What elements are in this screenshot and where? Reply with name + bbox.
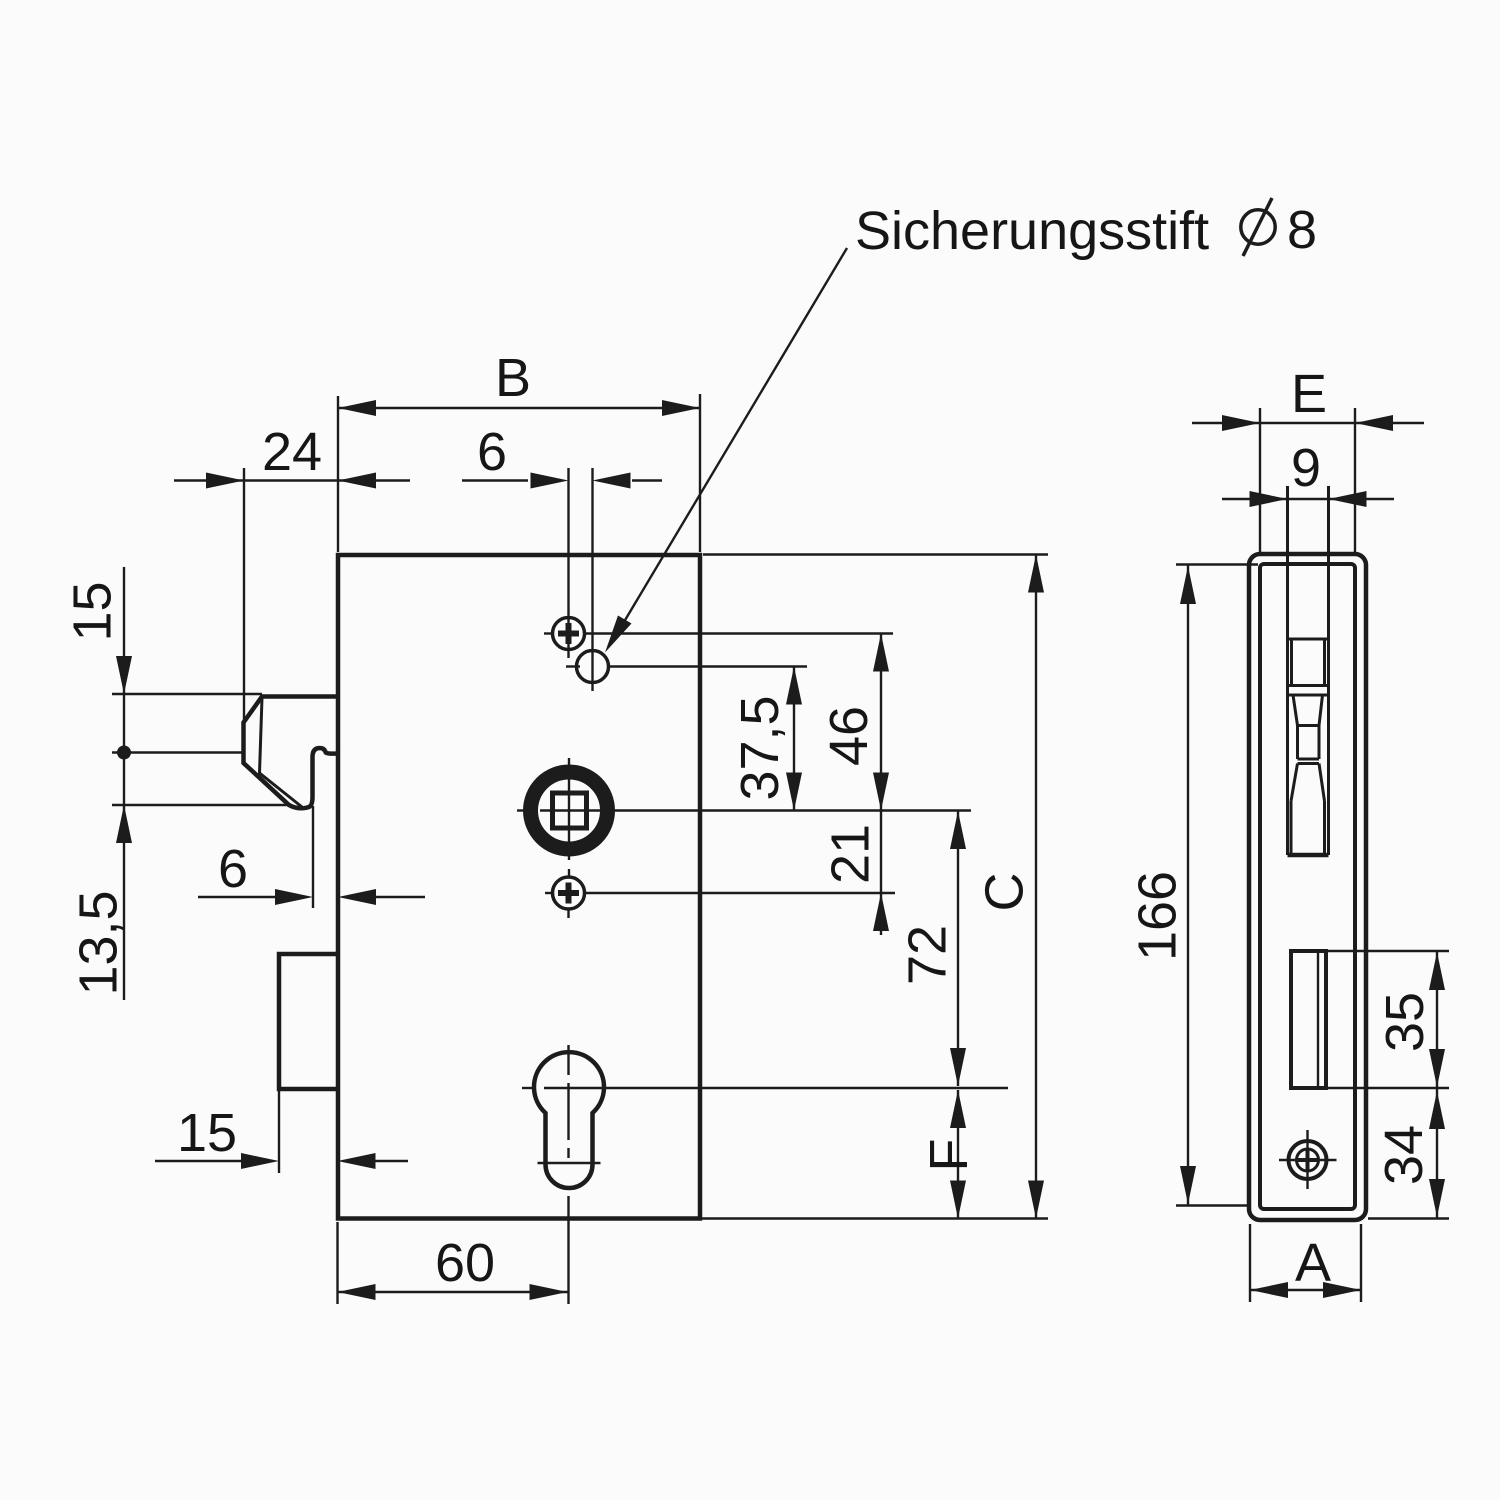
dimension 37,5: [730, 667, 802, 811]
dimension A (case depth): [1250, 1224, 1361, 1302]
leader line to Sicherungsstift pin: [605, 248, 847, 653]
latch bolt stack inside slot: [1288, 639, 1329, 855]
svg-text:C: C: [975, 873, 1035, 912]
side view outer case (rounded): [1249, 554, 1366, 1220]
euro profile cylinder hole: [522, 1045, 1008, 1304]
svg-text:166: 166: [1128, 871, 1188, 961]
svg-text:B: B: [495, 348, 531, 408]
dimension 6 (latch depth, lower left): [198, 806, 425, 908]
svg-text:72: 72: [898, 925, 958, 985]
strike cutout (side view): [1291, 951, 1326, 1088]
dimension 21: [821, 824, 890, 931]
svg-text:8: 8: [1287, 200, 1317, 260]
svg-text:60: 60: [435, 1233, 495, 1293]
svg-text:24: 24: [262, 422, 322, 482]
shared point dot: [117, 746, 131, 760]
dimension F: [919, 1090, 979, 1219]
latch hook (front view): [244, 697, 339, 809]
dimension 60 (cylinder offset, bottom): [338, 1222, 568, 1304]
dimension 35 (cutout height): [1327, 951, 1449, 1088]
dimension B (top width): [338, 348, 700, 552]
svg-text:F: F: [919, 1139, 979, 1172]
svg-text:6: 6: [477, 422, 507, 482]
dimension C (case height): [975, 555, 1045, 1219]
svg-text:Sicherungsstift: Sicherungsstift: [855, 201, 1209, 261]
svg-text:15: 15: [177, 1103, 237, 1163]
dimension 166 (plate height): [1128, 565, 1259, 1206]
dimension 9 (slot width): [1222, 438, 1394, 507]
latch centerline and extension lines (left): [112, 694, 338, 805]
side view inner plate: [1260, 564, 1355, 1209]
dimension 46: [819, 634, 889, 936]
dimension 15 (left, latch top to centerline): [63, 567, 133, 1000]
dimension 24 (latch projection): [174, 422, 410, 723]
top screw (phillips): [544, 618, 893, 650]
dimension 6 (screw to pin offset, top): [462, 422, 662, 691]
side view screw (phillips): [1279, 1130, 1337, 1189]
svg-text:13,5: 13,5: [69, 890, 129, 995]
dimension 72: [898, 811, 967, 1087]
latch slot edges: [1286, 486, 1289, 855]
Sicherungsstift hole: [566, 651, 807, 683]
square spindle hub: [517, 758, 971, 878]
lock case outline (front view): [338, 555, 700, 1219]
dimension 34 (cutout to bottom): [1368, 1088, 1449, 1219]
svg-text:9: 9: [1291, 438, 1321, 498]
svg-text:21: 21: [821, 824, 881, 884]
lower screw (phillips): [545, 877, 895, 918]
extension lines right of case: [701, 555, 1048, 1219]
svg-text:35: 35: [1375, 992, 1435, 1052]
svg-text:E: E: [1291, 364, 1327, 424]
dimension 13,5 (centerline to latch bottom): [69, 805, 133, 996]
svg-text:A: A: [1295, 1233, 1331, 1293]
diameter symbol: [1241, 198, 1275, 256]
svg-text:6: 6: [218, 839, 248, 899]
dimension E (plate width): [1192, 364, 1424, 552]
lower protrusion tab (front view): [279, 954, 338, 1089]
svg-text:37,5: 37,5: [730, 695, 790, 800]
dimension 15 (protrusion width, bottom left): [155, 1089, 408, 1173]
svg-text:34: 34: [1374, 1125, 1434, 1185]
svg-text:46: 46: [819, 706, 879, 766]
svg-text:15: 15: [63, 581, 123, 641]
